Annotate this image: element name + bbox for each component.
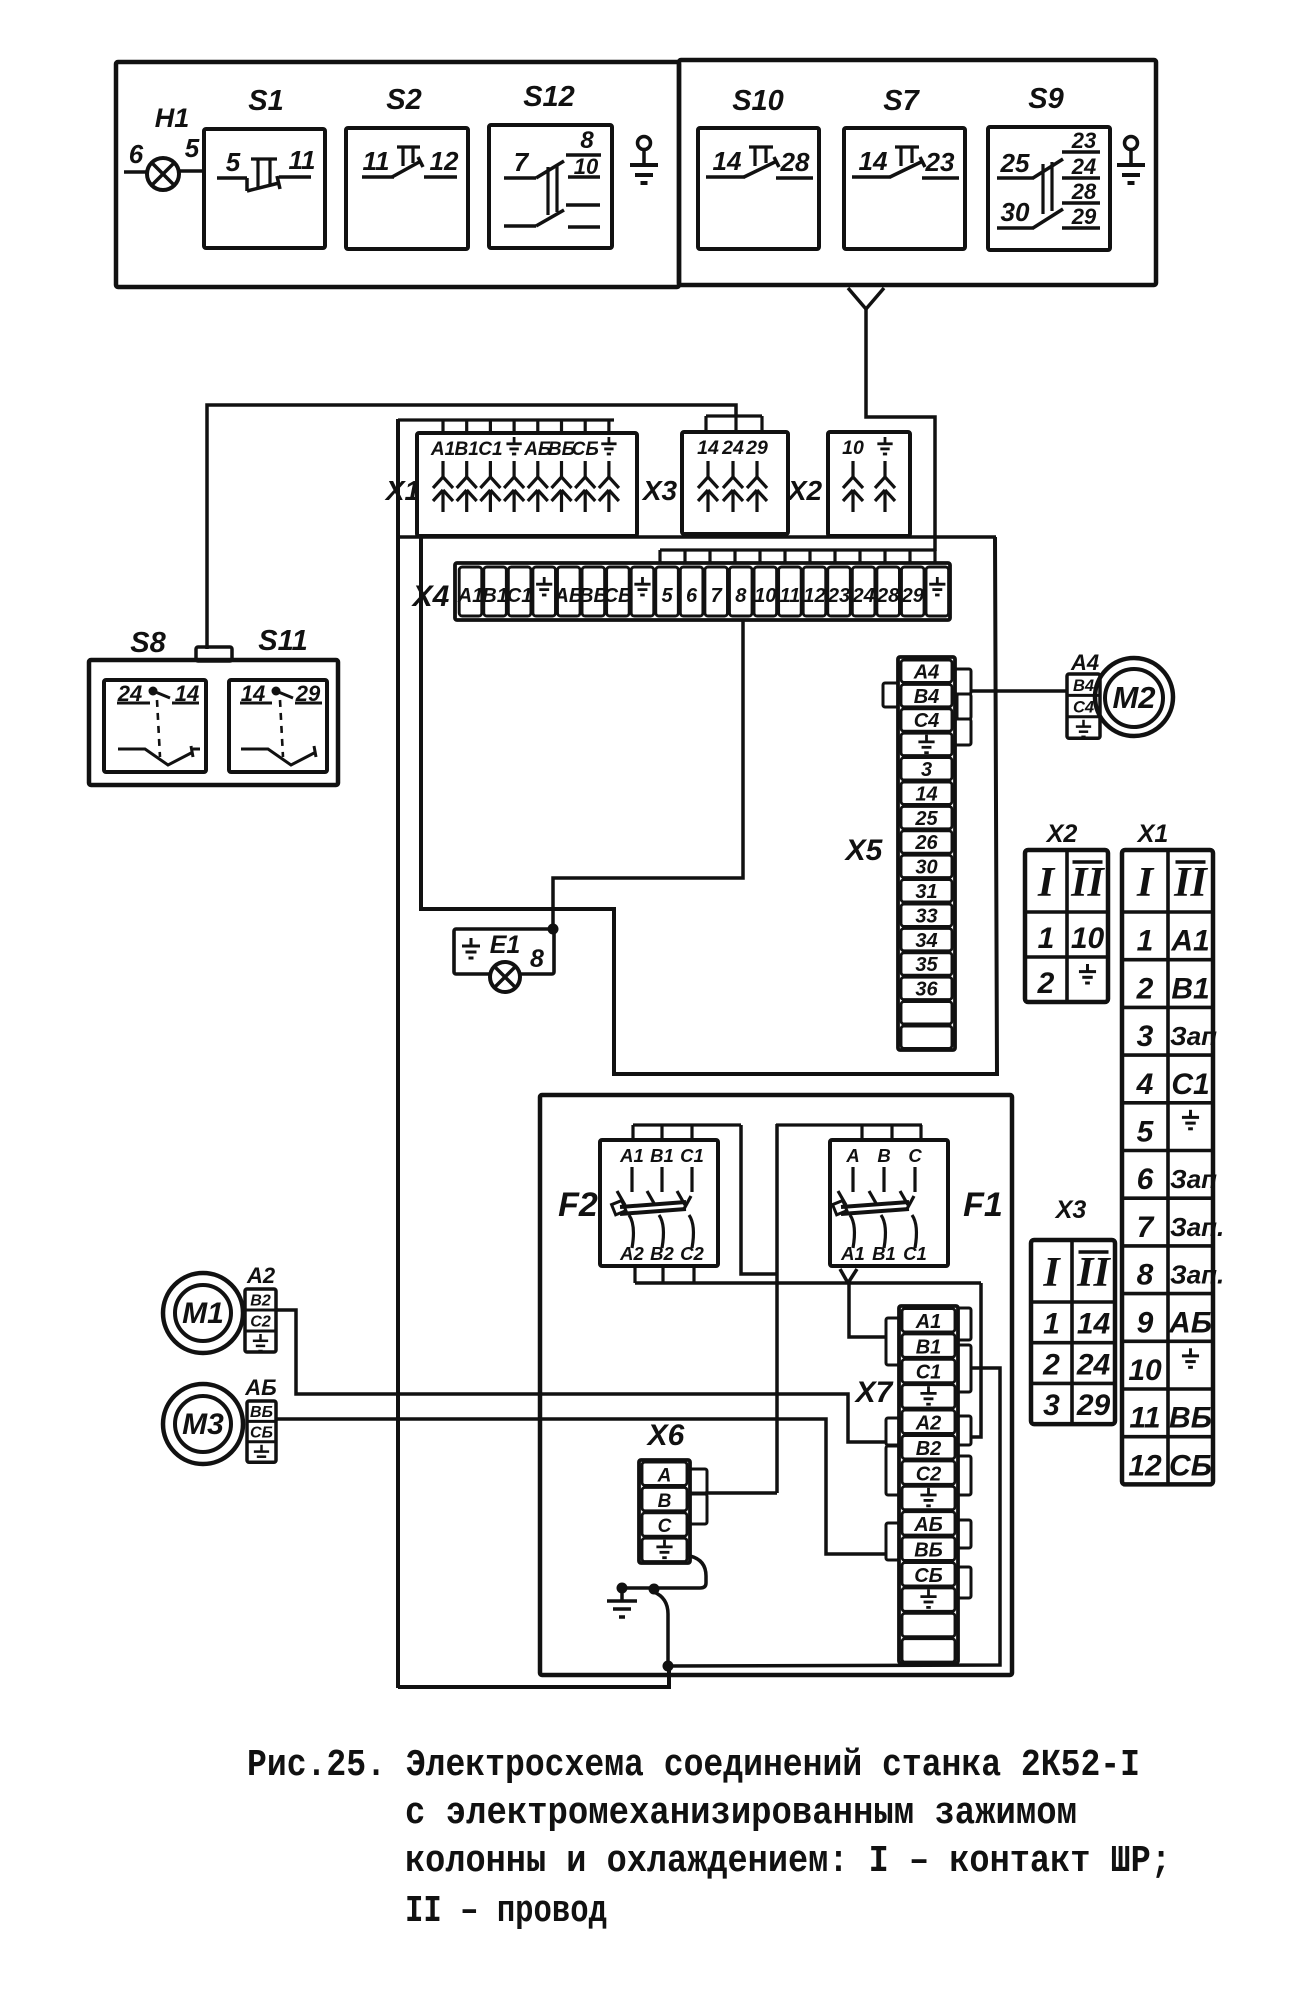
svg-text:С1: С1 [680, 1145, 704, 1166]
svg-text:14: 14 [697, 437, 719, 459]
svg-text:СБ: СБ [914, 1565, 943, 1587]
wire: arrow down to X2 area [866, 307, 935, 551]
junction at E1 [548, 924, 559, 935]
svg-text:В1: В1 [482, 585, 508, 607]
svg-text:А2: А2 [246, 1263, 276, 1288]
svg-text:А1: А1 [840, 1243, 865, 1264]
svg-text:А: А [657, 1465, 672, 1486]
svg-text:В1: В1 [650, 1145, 674, 1166]
wire: shelf line under connectors [398, 535, 996, 539]
svg-text:11: 11 [289, 145, 316, 175]
svg-text:2: 2 [1037, 967, 1055, 1000]
motor M3 [163, 1384, 243, 1464]
X7 left tabs [886, 1318, 899, 1365]
svg-text:6: 6 [686, 585, 698, 607]
svg-text:5: 5 [661, 585, 673, 607]
svg-text:23: 23 [827, 585, 850, 607]
svg-text:С2: С2 [250, 1314, 271, 1331]
svg-text:S7: S7 [883, 85, 920, 117]
svg-text:X2: X2 [1045, 820, 1078, 848]
svg-text:3: 3 [1043, 1389, 1060, 1422]
svg-text:14: 14 [1077, 1308, 1111, 1341]
junction dots at ground [617, 1583, 628, 1594]
svg-text:29: 29 [901, 585, 925, 607]
svg-text:Зап: Зап [1170, 1021, 1217, 1051]
svg-text:29: 29 [745, 437, 768, 459]
svg-text:А1: А1 [457, 585, 484, 607]
svg-text:M3: M3 [182, 1408, 224, 1441]
svg-text:СБ: СБ [604, 585, 633, 607]
svg-text:12: 12 [1128, 1449, 1162, 1482]
wire: bus drop to X7 B1 [849, 1283, 886, 1337]
svg-text:I: I [1136, 860, 1155, 906]
svg-text:23: 23 [925, 147, 955, 177]
svg-text:X2: X2 [786, 475, 823, 506]
svg-text:В1: В1 [1171, 972, 1209, 1005]
svg-text:10: 10 [1071, 922, 1105, 955]
svg-text:В4: В4 [914, 686, 940, 708]
svg-text:Рис.25. Электросхема соединени: Рис.25. Электросхема соединений станка 2… [247, 1744, 1140, 1787]
svg-text:С1: С1 [507, 585, 533, 607]
svg-text:33: 33 [915, 905, 937, 927]
svg-text:ВБ: ВБ [250, 1404, 273, 1421]
svg-text:Зап.: Зап. [1170, 1212, 1224, 1242]
svg-text:ВБ: ВБ [1169, 1402, 1212, 1435]
svg-text:СБ: СБ [572, 439, 599, 460]
svg-text:2: 2 [1136, 972, 1154, 1005]
svg-text:с электромеханизированным зажи: с электромеханизированным зажимом [405, 1792, 1077, 1835]
svg-text:А1: А1 [1170, 925, 1209, 958]
wire: X4 terminal 8 down to lamp E1 [553, 620, 743, 929]
svg-text:8: 8 [530, 945, 544, 973]
svg-text:6: 6 [129, 139, 144, 169]
cabinet bottom edge [398, 1666, 669, 1687]
svg-text:30: 30 [1001, 197, 1030, 227]
limit switch S8 [104, 680, 206, 772]
svg-text:X1: X1 [384, 475, 420, 506]
svg-text:С: С [908, 1145, 922, 1166]
wire: ground to bottom bus [654, 1592, 668, 1664]
svg-text:С: С [658, 1516, 672, 1537]
svg-text:3: 3 [921, 759, 932, 781]
svg-text:7: 7 [514, 147, 530, 177]
svg-text:С1: С1 [1171, 1068, 1209, 1101]
svg-text:X1: X1 [1136, 820, 1169, 848]
svg-text:8: 8 [735, 585, 747, 607]
wire: S8/S11 up and over to X3 [207, 405, 736, 649]
svg-text:23: 23 [1071, 128, 1096, 153]
enclosure box top-right [679, 60, 1156, 285]
svg-text:M2: M2 [1112, 680, 1155, 715]
svg-text:F2: F2 [558, 1186, 598, 1224]
inner panel outline [421, 537, 997, 1074]
motor M1 [163, 1273, 243, 1353]
limit switch S11 [229, 680, 327, 772]
svg-text:11: 11 [780, 585, 801, 607]
svg-text:24: 24 [851, 585, 874, 607]
svg-text:I: I [1042, 1250, 1061, 1296]
svg-text:26: 26 [914, 832, 938, 854]
svg-text:6: 6 [1137, 1163, 1154, 1196]
svg-text:35: 35 [915, 954, 938, 976]
svg-text:В1: В1 [872, 1243, 896, 1264]
svg-text:30: 30 [915, 857, 937, 879]
ground symbol (cabinet) [620, 1589, 624, 1601]
svg-text:С4: С4 [914, 710, 940, 732]
svg-text:2: 2 [1042, 1348, 1060, 1381]
svg-text:10: 10 [842, 437, 864, 459]
X7 right tabs [958, 1308, 971, 1340]
svg-text:29: 29 [1076, 1389, 1111, 1422]
bundle funnel under F1 [840, 1269, 848, 1283]
svg-text:11: 11 [363, 146, 390, 176]
wire: F2 top comb tail [741, 1125, 777, 1274]
svg-text:28: 28 [1071, 179, 1097, 204]
svg-text:II: II [1070, 860, 1105, 906]
svg-text:А2: А2 [619, 1243, 644, 1264]
svg-text:С1: С1 [903, 1243, 927, 1264]
svg-text:7: 7 [711, 585, 723, 607]
svg-text:10: 10 [1128, 1354, 1162, 1387]
svg-text:II: II [1173, 860, 1208, 906]
svg-text:А1: А1 [430, 439, 455, 460]
svg-text:5: 5 [1137, 1116, 1155, 1149]
svg-text:29: 29 [1071, 204, 1097, 229]
svg-text:S8: S8 [130, 627, 166, 659]
svg-text:11: 11 [1129, 1402, 1160, 1435]
svg-text:В: В [658, 1491, 672, 1512]
svg-text:S12: S12 [523, 81, 575, 113]
svg-text:В1: В1 [916, 1336, 942, 1358]
comb over connector X1 [398, 418, 614, 421]
svg-text:25: 25 [914, 808, 938, 830]
svg-text:С1: С1 [478, 439, 502, 460]
svg-text:F1: F1 [963, 1186, 1003, 1224]
svg-text:3: 3 [1137, 1020, 1154, 1053]
lamp E1 [454, 929, 554, 974]
svg-text:А2: А2 [915, 1413, 942, 1435]
svg-text:СБ: СБ [1169, 1449, 1212, 1482]
svg-text:1: 1 [1137, 925, 1154, 958]
svg-text:X3: X3 [641, 475, 678, 506]
svg-text:S11: S11 [258, 625, 307, 657]
wire: bottom bus to X7 right drop [668, 1368, 1000, 1666]
wire: X6 ground tail [624, 1556, 706, 1588]
comb under F2 + bundle bus [633, 1265, 636, 1283]
svg-text:S9: S9 [1028, 83, 1063, 115]
junction bottom bus [663, 1661, 674, 1672]
svg-text:В2: В2 [916, 1438, 942, 1460]
svg-text:С4: С4 [1073, 698, 1094, 716]
svg-text:28: 28 [876, 585, 900, 607]
svg-text:СБ: СБ [250, 1424, 273, 1441]
svg-text:X6: X6 [646, 1419, 685, 1452]
svg-text:ВБ: ВБ [914, 1540, 943, 1562]
svg-text:В4: В4 [1073, 677, 1094, 695]
X5 left tab [883, 683, 898, 707]
svg-text:5: 5 [185, 133, 200, 163]
svg-text:36: 36 [915, 979, 938, 1001]
svg-text:В1: В1 [455, 439, 479, 460]
ground symbol (left box) [638, 137, 651, 150]
comb above breaker F1 + drop wire to X6 [776, 1123, 922, 1126]
svg-text:II – провод: II – провод [405, 1890, 607, 1933]
svg-text:X4: X4 [411, 580, 450, 613]
svg-text:14: 14 [713, 146, 742, 176]
svg-text:А1: А1 [619, 1145, 644, 1166]
svg-text:С1: С1 [916, 1362, 942, 1384]
svg-text:4: 4 [1136, 1068, 1154, 1101]
svg-text:С2: С2 [916, 1463, 942, 1485]
wire: bus drop to X7 B2 side [970, 1283, 981, 1437]
X5 right tabs [955, 669, 971, 694]
svg-text:S10: S10 [732, 85, 784, 117]
X6 right tabs [690, 1469, 707, 1493]
svg-text:X7: X7 [854, 1376, 894, 1409]
svg-text:14: 14 [859, 146, 888, 176]
wire: M3 to X7 [276, 1419, 886, 1554]
svg-text:9: 9 [1137, 1306, 1154, 1339]
svg-text:28: 28 [780, 147, 810, 177]
svg-text:7: 7 [1137, 1211, 1155, 1244]
svg-text:В: В [877, 1145, 890, 1166]
svg-text:10: 10 [754, 585, 776, 607]
svg-text:А: А [845, 1145, 859, 1166]
svg-text:АБ: АБ [913, 1514, 943, 1536]
wire: X5 to motor M2 [971, 689, 1067, 693]
lower panel box (F1/F2 compartment) [540, 1095, 1012, 1675]
cabinet wall left edge [396, 419, 400, 1688]
svg-text:А4: А4 [1070, 650, 1099, 675]
svg-text:12: 12 [430, 146, 459, 176]
svg-text:колонны и охлаждением: I – кон: колонны и охлаждением: I – контакт ШР; [405, 1840, 1171, 1883]
svg-text:8: 8 [580, 127, 594, 154]
svg-text:Зап: Зап [1170, 1164, 1217, 1194]
svg-text:А1: А1 [915, 1311, 942, 1333]
svg-text:14: 14 [915, 783, 937, 805]
wire: X6 B to F1 drop [707, 1491, 777, 1495]
ground symbol (right box) [1125, 137, 1138, 150]
svg-text:АБ: АБ [1168, 1306, 1212, 1339]
motor M2 [1095, 658, 1173, 736]
svg-text:E1: E1 [490, 931, 521, 959]
svg-text:А4: А4 [913, 661, 940, 683]
svg-text:АБ: АБ [244, 1375, 276, 1400]
svg-text:24: 24 [1071, 154, 1096, 179]
wire: M1 to X7 [276, 1310, 886, 1442]
svg-text:В2: В2 [650, 1243, 674, 1264]
svg-text:I: I [1037, 860, 1056, 906]
svg-text:II: II [1076, 1250, 1111, 1296]
svg-text:34: 34 [915, 930, 937, 952]
svg-text:S2: S2 [386, 84, 421, 116]
svg-text:25: 25 [1000, 148, 1030, 178]
svg-text:H1: H1 [155, 103, 190, 133]
svg-text:12: 12 [803, 585, 825, 607]
svg-text:S1: S1 [248, 85, 283, 117]
svg-text:5: 5 [226, 147, 241, 177]
comb above breaker F2 [633, 1123, 741, 1126]
enclosure box top-left (pendant station) [116, 62, 679, 287]
svg-text:1: 1 [1038, 922, 1055, 955]
svg-text:X5: X5 [844, 834, 884, 867]
svg-text:Зап.: Зап. [1170, 1260, 1224, 1290]
cable arrow from station to cabinet [848, 288, 866, 309]
comb over connector X3 [706, 414, 762, 417]
svg-text:1: 1 [1043, 1308, 1060, 1341]
comb over X4 terminals 5..29 [660, 548, 935, 551]
svg-text:В2: В2 [250, 1293, 271, 1310]
svg-text:X3: X3 [1054, 1196, 1087, 1224]
svg-text:С2: С2 [680, 1243, 704, 1264]
svg-text:8: 8 [1137, 1259, 1154, 1292]
svg-text:24: 24 [1076, 1348, 1111, 1381]
svg-text:M1: M1 [182, 1297, 224, 1330]
svg-text:31: 31 [915, 881, 937, 903]
svg-text:24: 24 [721, 437, 744, 459]
